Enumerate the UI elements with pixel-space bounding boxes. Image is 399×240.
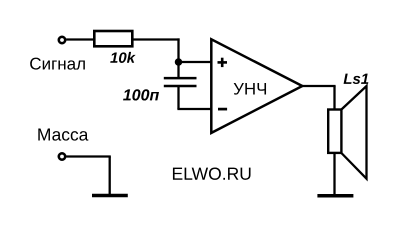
op-amp plus input symbol <box>218 58 228 67</box>
terminal Масса <box>59 153 65 159</box>
value label 100п <box>123 89 159 100</box>
wire capacitor to minus input <box>177 86 211 109</box>
watermark ELWO.RU <box>173 167 251 179</box>
wire input to resistor <box>66 38 95 40</box>
op-amp minus input symbol <box>218 108 227 111</box>
speaker Ls1 horn <box>341 86 366 179</box>
wire speaker to ground <box>333 153 335 196</box>
terminal input Сигнал <box>59 37 65 43</box>
ground bar under speaker <box>317 194 353 198</box>
wire op-amp output <box>302 86 335 110</box>
label Сигнал <box>30 58 85 70</box>
value label 10k <box>110 52 135 63</box>
ground bar Масса <box>92 194 128 198</box>
op-amp label УНЧ <box>234 83 266 95</box>
wire corner down to ground <box>109 157 111 196</box>
capacitor C1 100п bottom plate <box>164 85 197 88</box>
label Масса <box>38 129 88 141</box>
wire resistor to node <box>132 38 180 40</box>
wire node to op-amp plus input <box>179 61 212 63</box>
label Ls1 <box>344 74 369 84</box>
speaker Ls1 driver box <box>328 110 341 153</box>
resistor R1 10k <box>94 31 132 46</box>
capacitor C1 100п top plate <box>164 77 197 80</box>
wire Масса to corner <box>66 155 111 157</box>
junction node dot <box>175 58 183 66</box>
wire node down to capacitor <box>177 38 179 78</box>
op-amp U1 УНЧ triangle <box>211 39 302 133</box>
